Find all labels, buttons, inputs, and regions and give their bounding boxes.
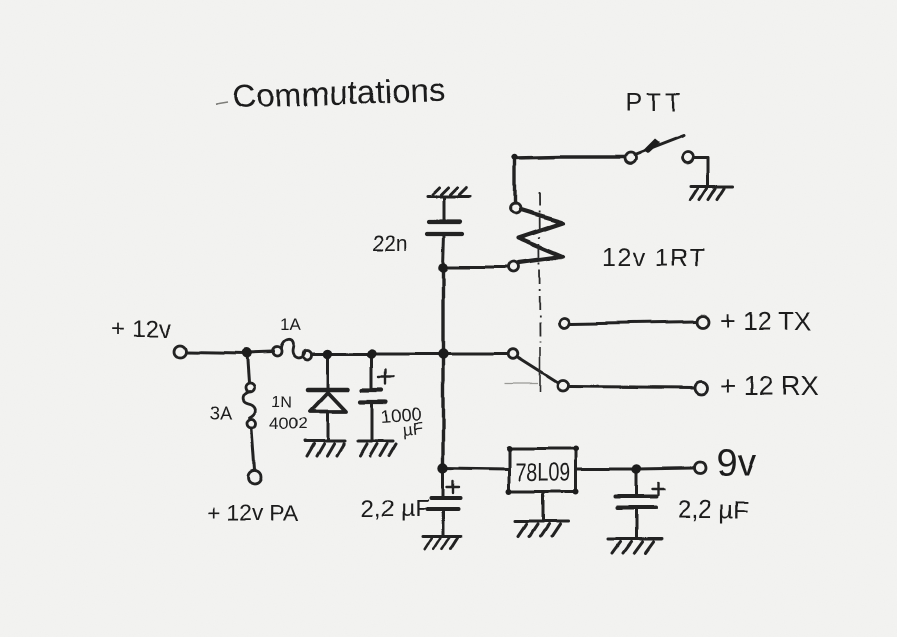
svg-text:22n: 22n [373, 232, 408, 255]
svg-text:+ 12 TX: + 12 TX [720, 306, 811, 336]
svg-text:PTT: PTT [626, 89, 685, 117]
svg-text:1N: 1N [272, 394, 292, 411]
svg-text:+ 12 RX: + 12 RX [720, 371, 818, 401]
svg-text:+ 12v PA: + 12v PA [206, 500, 299, 526]
svg-text:78L09: 78L09 [515, 457, 571, 486]
svg-text:3A: 3A [209, 404, 233, 425]
svg-text:+ 12v: + 12v [112, 316, 171, 343]
svg-text:1A: 1A [280, 315, 301, 334]
svg-text:Commutations: Commutations [232, 71, 446, 115]
svg-text:2,2 µF: 2,2 µF [678, 496, 749, 524]
svg-text:9v: 9v [716, 443, 756, 485]
svg-text:2,2 µF: 2,2 µF [361, 495, 430, 522]
svg-text:4002: 4002 [270, 414, 308, 433]
svg-text:µF: µF [401, 419, 423, 440]
svg-text:12v 1RT: 12v 1RT [601, 244, 706, 272]
